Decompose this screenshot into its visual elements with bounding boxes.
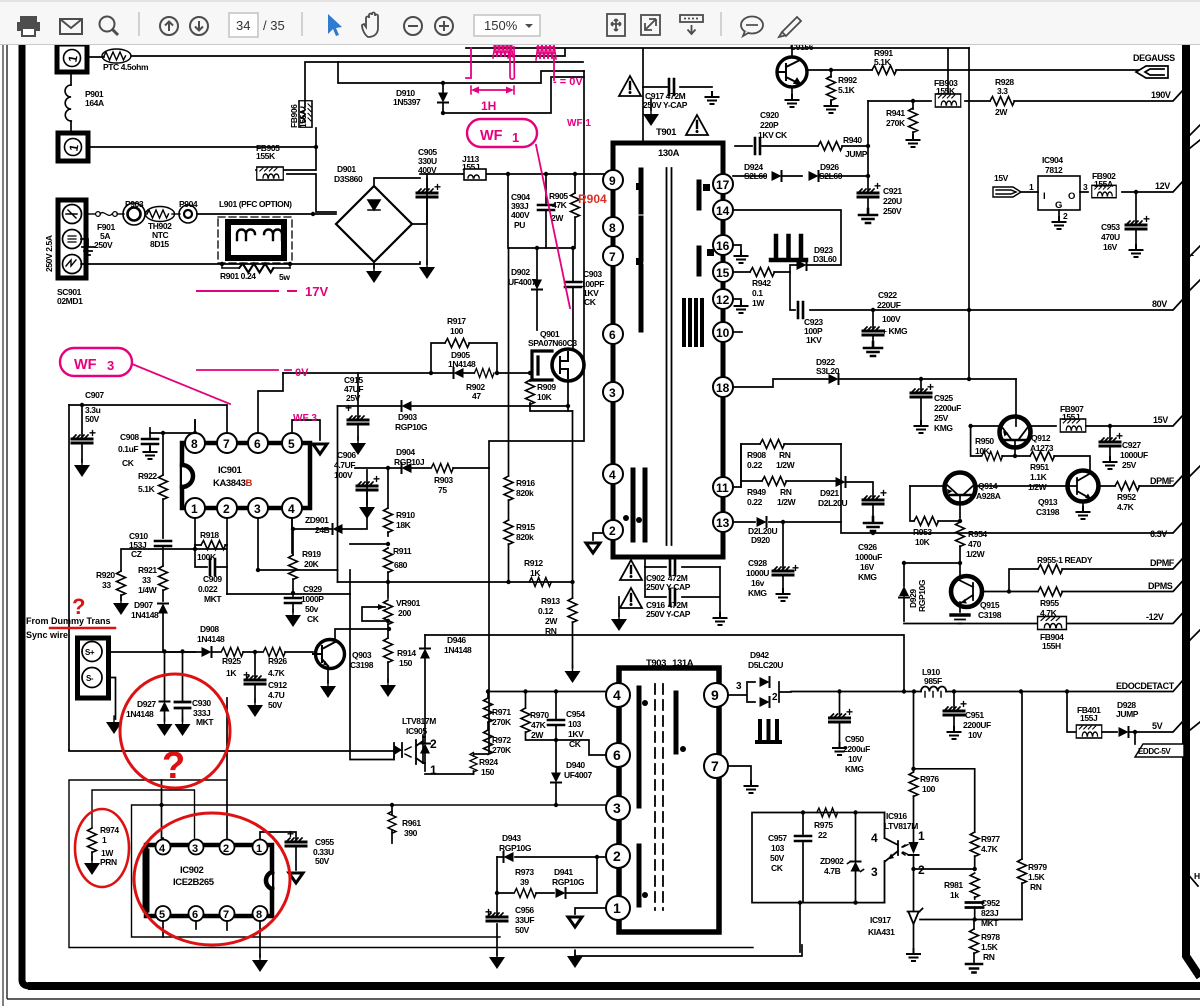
svg-text:250V: 250V	[883, 206, 902, 216]
svg-text:470U: 470U	[1101, 232, 1120, 242]
svg-text:15V: 15V	[994, 173, 1009, 183]
svg-text:22: 22	[818, 830, 827, 840]
wire pin6 stub	[195, 921, 197, 929]
svg-text:R915: R915	[516, 522, 535, 532]
svg-text:RGP10G: RGP10G	[552, 877, 585, 887]
pin 1	[185, 498, 205, 518]
svg-text:L901 (PFC OPTION): L901 (PFC OPTION)	[219, 199, 292, 209]
svg-text:47: 47	[472, 391, 481, 401]
resistor R979	[1021, 692, 1023, 860]
wire FB906 top	[305, 62, 583, 107]
svg-text:RN: RN	[545, 626, 557, 636]
highlighter pen	[779, 17, 801, 37]
svg-text:4: 4	[609, 468, 616, 482]
svg-text:2: 2	[613, 848, 621, 864]
svg-text:820k: 820k	[516, 488, 534, 498]
wire from P902	[88, 128, 316, 147]
svg-text:JUMP: JUMP	[1116, 709, 1139, 719]
wire left vertical x337	[337, 406, 339, 582]
earth E pin	[81, 239, 94, 255]
dashed core	[655, 684, 663, 910]
resistor R925	[221, 648, 243, 657]
capacitor C929	[291, 591, 295, 595]
node pin4 riser	[159, 803, 163, 807]
svg-text:CZ: CZ	[131, 549, 142, 559]
svg-text:+: +	[1143, 212, 1150, 226]
svg-text:S-: S-	[86, 674, 94, 683]
gate bars	[532, 351, 552, 380]
diode D920	[733, 521, 841, 523]
svg-text:220U: 220U	[883, 196, 902, 206]
svg-text:R954: R954	[968, 529, 987, 539]
svg-text:SPA07N60C3: SPA07N60C3	[528, 338, 577, 348]
ground Q931	[786, 95, 799, 107]
IC901 KA3843B	[182, 443, 310, 508]
fuse F901	[86, 213, 95, 215]
svg-text:R926: R926	[268, 656, 287, 666]
resistor R952	[1115, 482, 1140, 491]
ground D927	[157, 718, 173, 736]
svg-text:DPMF: DPMF	[1150, 558, 1175, 568]
svg-text:+: +	[880, 486, 887, 500]
svg-text:IC905: IC905	[406, 726, 427, 736]
pin 1	[606, 896, 630, 920]
diode D926	[783, 175, 802, 177]
svg-text:CK: CK	[307, 614, 320, 624]
jack P904	[172, 213, 180, 215]
svg-text:IC901: IC901	[218, 465, 242, 476]
ref wire	[920, 919, 1022, 921]
svg-text:4.7K: 4.7K	[981, 844, 999, 854]
vertical x497	[496, 857, 498, 955]
pin 2	[220, 840, 235, 856]
wire D929 to Q915	[904, 562, 960, 564]
svg-text:12V: 12V	[1155, 181, 1170, 191]
svg-text:400V: 400V	[418, 165, 437, 175]
svg-text:1/2W: 1/2W	[1028, 482, 1048, 492]
svg-text:LTV817M: LTV817M	[402, 716, 436, 726]
svg-text:3: 3	[736, 681, 742, 692]
svg-text:PRN: PRN	[100, 857, 117, 867]
svg-text:R910: R910	[396, 510, 415, 520]
ground C930	[175, 718, 191, 736]
svg-text:5.1K: 5.1K	[838, 85, 856, 95]
svg-text:155H: 155H	[1042, 641, 1061, 651]
red circle IC902	[134, 813, 290, 945]
left thin inner	[2, 45, 4, 1006]
svg-text:1W: 1W	[752, 298, 765, 308]
resistor R951	[1002, 455, 1030, 457]
svg-text:-12V: -12V	[1146, 612, 1164, 622]
svg-text:50v: 50v	[305, 604, 319, 614]
pin16 ground	[733, 245, 741, 254]
resistor R961	[388, 811, 396, 833]
svg-text:MKT: MKT	[204, 594, 222, 604]
connector S+/S-	[78, 638, 109, 698]
svg-text:R904: R904	[578, 192, 607, 206]
transistor Q903	[316, 640, 345, 669]
wire pin4 down	[291, 518, 293, 553]
resistor R912	[529, 578, 551, 587]
svg-text:KIA431: KIA431	[868, 927, 895, 937]
wire gate	[497, 372, 532, 374]
red circle question	[120, 674, 230, 788]
svg-text:7: 7	[711, 758, 719, 774]
svg-text:R916: R916	[516, 478, 535, 488]
svg-text:R992: R992	[838, 75, 857, 85]
transistor Q915	[951, 576, 982, 607]
diode D927	[164, 652, 166, 722]
wire x489 vertical	[488, 468, 490, 753]
red ellipse R974	[75, 809, 129, 887]
svg-text:200: 200	[398, 608, 412, 618]
jack P903	[117, 213, 124, 215]
pin12 ground	[733, 299, 741, 304]
ground C905	[419, 261, 435, 279]
svg-text:P903: P903	[125, 199, 144, 209]
svg-text:PU: PU	[514, 220, 525, 230]
wire pin6 up	[258, 373, 283, 433]
svg-text:33: 33	[142, 575, 151, 585]
wire pin3-R919 row	[258, 569, 338, 571]
svg-text:S2L60: S2L60	[744, 171, 768, 181]
inner frame B rail	[132, 805, 607, 937]
svg-text:IC902: IC902	[180, 865, 203, 876]
wire N to bridge bottom	[81, 262, 420, 264]
svg-text:D2L20U: D2L20U	[818, 498, 848, 508]
svg-text:1: 1	[1029, 182, 1034, 192]
pink 17V marker	[197, 290, 278, 292]
svg-text:103: 103	[568, 719, 582, 729]
wire Q901 source down	[568, 381, 573, 411]
svg-text:S+: S+	[85, 648, 95, 657]
svg-text:IC917: IC917	[870, 915, 891, 925]
svg-text:25V: 25V	[1122, 460, 1137, 470]
svg-text:Q915: Q915	[980, 600, 1000, 610]
resistor R915	[504, 520, 513, 545]
svg-text:R913: R913	[541, 596, 560, 606]
svg-text:R924: R924	[479, 757, 498, 767]
wire opto to D946 column	[423, 737, 474, 774]
svg-text:R914: R914	[397, 648, 416, 658]
pin 4	[603, 464, 623, 484]
svg-text:6: 6	[609, 328, 616, 342]
svg-text:R955-1 READY: R955-1 READY	[1037, 555, 1093, 565]
svg-text:10V: 10V	[968, 730, 983, 740]
pin 2	[606, 844, 630, 868]
wire C904 riser	[545, 174, 547, 203]
inductor P901	[65, 85, 71, 121]
svg-text:270K: 270K	[492, 745, 512, 755]
svg-text:DEGAUSS: DEGAUSS	[1133, 53, 1175, 63]
outer box sync section	[69, 780, 753, 948]
capacitor C909	[210, 559, 215, 575]
svg-text:3: 3	[254, 502, 261, 516]
svg-text:2200uF: 2200uF	[843, 744, 870, 754]
svg-text:R921: R921	[138, 565, 157, 575]
transistor Q913	[1068, 471, 1099, 502]
svg-text:4: 4	[159, 843, 166, 855]
svg-text:RN: RN	[1030, 882, 1042, 892]
svg-text:C954: C954	[566, 709, 585, 719]
wire FB905 to bridge	[287, 174, 336, 212]
svg-text:C921: C921	[883, 186, 902, 196]
pin 4	[282, 498, 302, 518]
capacitor C951	[953, 692, 955, 709]
svg-text:RN: RN	[779, 450, 791, 460]
pin 6	[189, 906, 204, 921]
svg-text:C926: C926	[858, 542, 877, 552]
svg-text:4: 4	[288, 502, 295, 516]
svg-text:2W: 2W	[545, 616, 558, 626]
wire pin2 riser	[226, 698, 228, 838]
svg-text:IC904: IC904	[1042, 155, 1063, 165]
svg-text:KMG: KMG	[845, 764, 864, 774]
pin 7	[217, 433, 237, 453]
pin7 ground	[728, 766, 751, 784]
svg-text:3: 3	[871, 865, 878, 879]
pin10 stub	[733, 331, 742, 333]
wire D910 bottom	[443, 77, 584, 113]
svg-text:10K: 10K	[975, 446, 991, 456]
svg-text:MKT: MKT	[196, 717, 214, 727]
svg-text:VR901: VR901	[396, 598, 421, 608]
svg-text:103: 103	[771, 843, 785, 853]
svg-text:D921: D921	[820, 488, 839, 498]
svg-text:0.22: 0.22	[747, 497, 763, 507]
svg-text:7: 7	[223, 909, 229, 921]
svg-text:DPMF: DPMF	[1150, 476, 1175, 486]
svg-text:80V: 80V	[1152, 299, 1167, 309]
diode D929	[903, 563, 905, 621]
svg-text:D3L60: D3L60	[813, 254, 837, 264]
svg-text:WF 3: WF 3	[293, 413, 317, 424]
svg-text:R940: R940	[843, 135, 862, 145]
svg-text:1N4148: 1N4148	[197, 634, 225, 644]
connector S+/S- fix wires	[109, 678, 116, 720]
svg-text:1N4148: 1N4148	[448, 359, 476, 369]
svg-text:+: +	[345, 401, 352, 415]
separator	[138, 12, 140, 36]
pin 8	[185, 433, 205, 453]
svg-text:S3L20: S3L20	[816, 366, 840, 376]
up arrow circle	[160, 17, 178, 35]
svg-text:WF: WF	[74, 357, 97, 373]
resistor R975	[817, 808, 838, 817]
svg-text:6.3V: 6.3V	[1150, 529, 1167, 539]
svg-text:R953: R953	[913, 527, 932, 537]
svg-text:2W: 2W	[995, 107, 1008, 117]
wire pin1	[575, 908, 606, 914]
right edge low stubs	[1186, 722, 1200, 886]
svg-text:50V: 50V	[315, 856, 330, 866]
core lines	[667, 168, 672, 545]
wire mid junction	[508, 174, 573, 248]
resistor PTC	[102, 49, 131, 63]
svg-text:RN: RN	[780, 487, 792, 497]
resistor R916	[504, 476, 513, 501]
svg-text:R971: R971	[492, 707, 511, 717]
pin 11	[713, 477, 733, 497]
pin 15	[713, 262, 733, 282]
IC904 ground	[1058, 210, 1060, 220]
svg-text:2200UF: 2200UF	[963, 720, 991, 730]
pink waveform scribble 2	[510, 47, 514, 79]
svg-text:ZD902: ZD902	[820, 856, 844, 866]
toolbar	[0, 0, 1200, 45]
svg-text:190V: 190V	[1151, 90, 1171, 100]
svg-text:R950: R950	[975, 436, 994, 446]
svg-text:C951: C951	[965, 710, 984, 720]
svg-text:9: 9	[609, 174, 616, 188]
svg-text:3: 3	[192, 843, 198, 855]
svg-text:390: 390	[404, 828, 418, 838]
pin 6	[603, 324, 623, 344]
pin 9	[704, 683, 728, 707]
svg-text:R922: R922	[138, 471, 157, 481]
resistor R901	[222, 263, 290, 268]
svg-text:39: 39	[520, 877, 529, 887]
diode D910	[438, 93, 448, 103]
svg-text:5: 5	[288, 437, 295, 451]
hand icon	[362, 13, 378, 38]
pink waveform scribble 1	[466, 48, 471, 78]
svg-text:75: 75	[438, 485, 447, 495]
wire	[87, 56, 104, 58]
pin 1	[253, 840, 268, 856]
svg-text:2: 2	[609, 524, 616, 538]
svg-text:1N4148: 1N4148	[126, 709, 154, 719]
resistor R954	[958, 519, 962, 523]
svg-text:UF4007: UF4007	[564, 770, 593, 780]
svg-text:Q913: Q913	[1038, 497, 1058, 507]
svg-text:RN: RN	[983, 952, 995, 962]
resistor R911	[384, 548, 393, 573]
svg-text:150%: 150%	[484, 18, 518, 33]
svg-text:R961: R961	[402, 818, 421, 828]
svg-text:6: 6	[192, 909, 198, 921]
svg-text:UF4007: UF4007	[508, 277, 537, 287]
capacitor C912	[254, 652, 256, 677]
svg-text:5.1K: 5.1K	[138, 484, 156, 494]
svg-text:D943: D943	[502, 833, 521, 843]
zoom box	[474, 15, 540, 36]
svg-text:R976: R976	[920, 774, 939, 784]
svg-text:T901: T901	[656, 127, 677, 138]
resistor R976	[913, 692, 915, 773]
svg-text:C956: C956	[515, 905, 534, 915]
transistor Q912	[1000, 417, 1031, 448]
inner frame A	[92, 790, 195, 838]
pink WF3 pointer line	[132, 364, 230, 404]
resistor R950	[971, 426, 981, 456]
svg-text:18: 18	[716, 381, 730, 395]
svg-text:50V: 50V	[770, 853, 785, 863]
capacitor C927	[1108, 424, 1112, 428]
pin 7	[603, 246, 623, 266]
svg-text:+: +	[792, 561, 799, 575]
cursor arrow (blue)	[328, 14, 342, 36]
svg-text:5V: 5V	[1152, 721, 1163, 731]
svg-text:4.7U: 4.7U	[268, 690, 285, 700]
svg-text:C3198: C3198	[1036, 507, 1060, 517]
diode D924	[733, 175, 765, 177]
pink WF 1 bubble	[467, 119, 537, 147]
diode D940	[555, 740, 557, 772]
svg-text:1K: 1K	[226, 668, 237, 678]
svg-text:7: 7	[609, 250, 616, 264]
resistor R908	[733, 444, 841, 487]
svg-text:20K: 20K	[304, 559, 320, 569]
svg-text:2: 2	[223, 502, 230, 516]
pin 16	[713, 235, 733, 255]
resistor R910	[384, 508, 393, 533]
svg-text:D901: D901	[337, 164, 356, 174]
svg-text:10K: 10K	[537, 392, 553, 402]
svg-text:8: 8	[256, 909, 262, 921]
envelope icon	[60, 19, 82, 34]
svg-text:1000U: 1000U	[746, 568, 769, 578]
connector SC901	[58, 200, 86, 278]
svg-text:7: 7	[223, 437, 230, 451]
-12V rail with FB904	[904, 612, 1184, 624]
wire bridge bottom gnd	[373, 262, 375, 268]
plus circle	[435, 17, 453, 35]
svg-text:R901 0.24: R901 0.24	[220, 271, 256, 281]
svg-text:50V: 50V	[85, 414, 100, 424]
svg-text:P904: P904	[179, 199, 198, 209]
resistor R955	[1009, 591, 1038, 593]
red underline	[50, 627, 115, 630]
svg-text:1: 1	[191, 502, 198, 516]
svg-text:17V: 17V	[305, 284, 328, 299]
wire P904 to L901/bridge	[197, 213, 336, 215]
svg-text:1KV: 1KV	[806, 335, 822, 345]
svg-text:10V: 10V	[848, 754, 863, 764]
pin 12	[713, 289, 733, 309]
svg-text:R977: R977	[981, 834, 1000, 844]
pin 14	[713, 200, 733, 220]
svg-text:50V: 50V	[268, 700, 283, 710]
svg-text:D5LC20U: D5LC20U	[748, 660, 783, 670]
capacitor C903	[565, 282, 581, 287]
svg-text:1: 1	[512, 130, 519, 145]
svg-text:ZD901: ZD901	[305, 515, 329, 525]
svg-text:R941: R941	[886, 108, 905, 118]
capacitor C921	[867, 176, 869, 190]
svg-text:?: ?	[162, 745, 185, 787]
svg-text:R975: R975	[814, 820, 833, 830]
long vertical wire	[968, 48, 970, 379]
svg-text:RGP10G: RGP10G	[917, 579, 927, 612]
ground S-	[106, 716, 122, 734]
svg-text:6: 6	[613, 747, 621, 763]
svg-text:1.5K: 1.5K	[1028, 872, 1046, 882]
pin 5	[282, 433, 302, 453]
svg-text:R911: R911	[393, 546, 412, 556]
pin 8	[603, 217, 623, 237]
capacitor C925	[920, 379, 922, 390]
resistor R991	[806, 69, 1143, 71]
node D910 bottom	[441, 111, 445, 115]
svg-text:R972: R972	[492, 735, 511, 745]
svg-text:CK: CK	[584, 297, 597, 307]
svg-text:2200uF: 2200uF	[934, 403, 961, 413]
svg-text:155J: 155J	[1080, 713, 1098, 723]
svg-text:MKT: MKT	[981, 918, 999, 928]
svg-text:47K: 47K	[552, 200, 568, 210]
svg-text:1/2W: 1/2W	[777, 497, 797, 507]
